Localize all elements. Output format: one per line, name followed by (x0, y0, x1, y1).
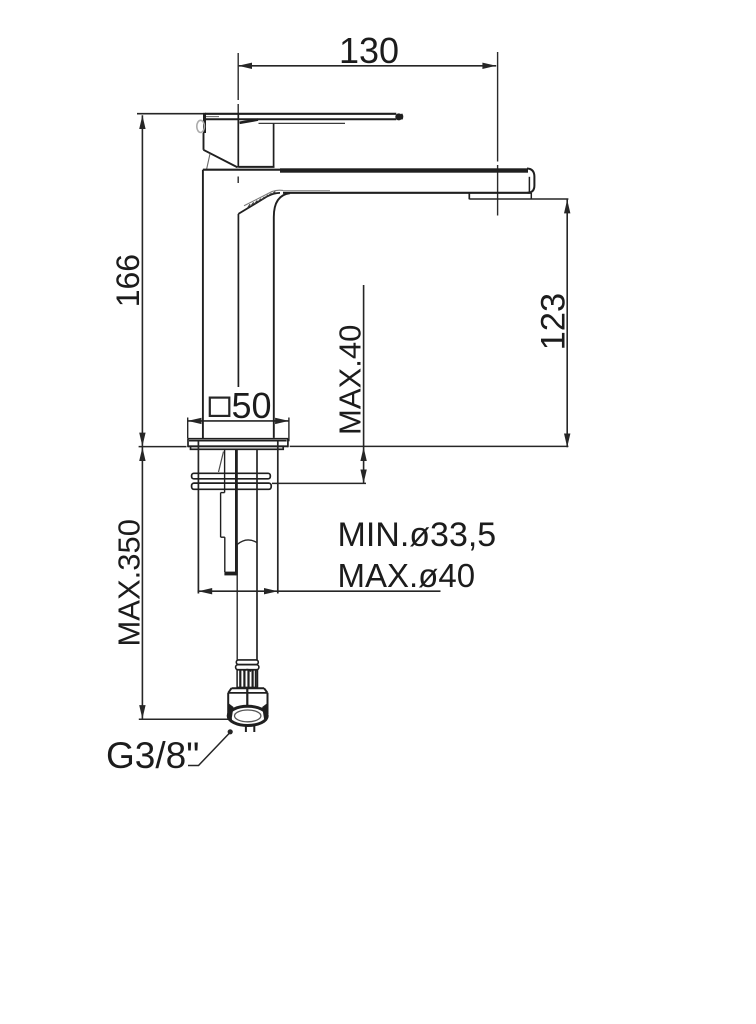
chamfer hatching (248, 192, 276, 209)
dimension 123 line (566, 200, 568, 448)
base flange lower plate (191, 446, 284, 449)
dimension MAX.40 arrows (360, 447, 366, 483)
supply hose right line (256, 450, 258, 660)
dimension 130 arrows (238, 63, 496, 69)
svg-text:MAX.350: MAX.350 (112, 519, 147, 647)
head chamfer hidden line (207, 154, 210, 170)
dimension 166 line (141, 115, 143, 446)
aerator left edge (468, 193, 470, 199)
supply hose left line (236, 545, 238, 661)
lever left cap (203, 113, 206, 133)
spout bottom faint second line (283, 190, 330, 192)
head left edge (203, 133, 205, 150)
svg-text:50: 50 (231, 385, 271, 426)
spout right inner line (528, 177, 530, 194)
head chamfer (203, 150, 237, 168)
base flange upper plate bottom edge (188, 445, 288, 447)
escutcheon ring upper (192, 473, 271, 479)
threaded rod upper segment (225, 450, 237, 575)
dimension 123 arrows (564, 200, 570, 448)
extension tick at mounting plane left (139, 446, 187, 448)
dimension 130 line (238, 65, 496, 67)
hose ferrule ribbed (237, 670, 257, 688)
svg-text:G3/8": G3/8" (106, 735, 199, 776)
base flange upper plate top edge (188, 438, 288, 440)
dimension MAX.350 arrows (139, 447, 145, 719)
extension line top (handle top) (137, 113, 203, 115)
body inner vertical line (237, 214, 239, 387)
spout underside diagonal (238, 193, 280, 214)
lever inner edge detail (206, 116, 219, 118)
lever pivot ellipse (197, 120, 205, 132)
base flange upper plate second edge (189, 440, 287, 442)
lever wedge under handle (240, 120, 259, 123)
shank cylinder right line (277, 441, 279, 593)
svg-text:166: 166 (110, 254, 146, 307)
nut body (228, 688, 267, 714)
dimension 50 line (188, 420, 289, 422)
hose collar band upper (236, 660, 258, 665)
hose ticks below nut (246, 726, 254, 732)
cartridge box bottom (238, 166, 274, 168)
dimension MAX.40 line (363, 285, 365, 483)
lever tip circle (396, 114, 402, 120)
dimension 50 arrows (188, 418, 289, 424)
lever tip cap (402, 114, 403, 120)
body right edge (274, 193, 290, 438)
svg-text:130: 130 (339, 30, 399, 71)
threaded rod bottom cap (224, 572, 237, 576)
square symbol (210, 398, 230, 416)
base flange upper plate left edge (187, 439, 189, 448)
extension/centerline left x=238 (237, 53, 239, 183)
leader G3/8 (188, 733, 230, 766)
svg-text:MIN.ø33,5: MIN.ø33,5 (338, 516, 497, 554)
nut lower corner shadows (228, 703, 267, 720)
spout bottom line (283, 192, 532, 194)
cap top line (259, 122, 346, 124)
dimension MIN/MAX arrows (198, 588, 277, 594)
body left edge (202, 170, 204, 438)
svg-text:MAX.40: MAX.40 (333, 325, 368, 435)
body top line (203, 169, 281, 171)
nut bottom ellipse (228, 706, 267, 725)
dimension MAX.350 line (141, 447, 143, 719)
cartridge box left edge (237, 114, 239, 168)
spout right end outline (527, 169, 534, 193)
escutcheon ring lower (192, 483, 272, 489)
cartridge box right edge (273, 123, 275, 166)
svg-text:MAX.ø40: MAX.ø40 (338, 557, 476, 594)
threaded rod wide segment (221, 493, 225, 572)
svg-text:123: 123 (535, 293, 573, 351)
base flange upper plate right edge (287, 439, 289, 448)
shank cylinder left line (197, 441, 199, 593)
nut bottom inner ellipse (235, 710, 261, 722)
spout top band (280, 168, 528, 172)
extension line bottom (hose end) (139, 718, 232, 720)
aerator right edge (530, 193, 532, 199)
dimension MIN/MAX diameter line (198, 590, 441, 592)
threaded rod diagonal detail (219, 452, 224, 473)
lever handle top edge (205, 113, 396, 115)
spout underside parallel line (244, 190, 283, 206)
dimension 166 arrows (139, 115, 145, 446)
extension line aerator bottom (469, 198, 568, 200)
shared extension line at mounting plane right (290, 445, 569, 447)
dimension 50 extension lines (188, 418, 289, 442)
hose collar band lower (236, 665, 259, 670)
extension line lower ring (272, 482, 366, 484)
extension/centerline right x=497.6 (497, 52, 499, 216)
supply hose bend arc (237, 540, 257, 545)
lever handle bottom edge (206, 118, 396, 120)
